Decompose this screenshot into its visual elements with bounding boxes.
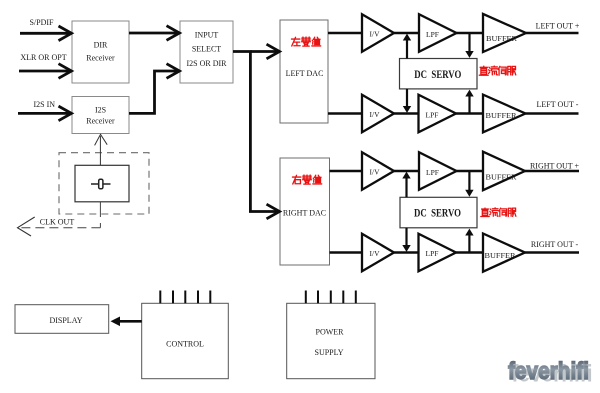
svg-text:I/V: I/V (370, 110, 381, 119)
svg-text:CONTROL: CONTROL (166, 340, 204, 349)
svg-text:BUFFER: BUFFER (486, 173, 517, 182)
svg-text:RIGHT OUT +: RIGHT OUT + (530, 162, 580, 171)
svg-text:I/V: I/V (370, 29, 381, 38)
svg-text:LEFT OUT +: LEFT OUT + (536, 22, 580, 31)
svg-text:LPF: LPF (426, 249, 439, 258)
svg-text:LEFT DAC: LEFT DAC (286, 69, 324, 78)
svg-text:DC SERVO: DC SERVO (414, 206, 461, 220)
svg-text:Receiver: Receiver (86, 54, 115, 63)
svg-text:BUFFER: BUFFER (486, 34, 517, 43)
svg-text:CLK OUT: CLK OUT (40, 218, 75, 227)
svg-text:I2S: I2S (95, 106, 106, 115)
svg-text:XLR OR OPT: XLR OR OPT (20, 53, 66, 62)
svg-text:RIGHT DAC: RIGHT DAC (283, 209, 326, 218)
svg-text:S/PDIF: S/PDIF (29, 18, 54, 27)
svg-text:SUPPLY: SUPPLY (315, 348, 344, 357)
svg-text:I/V: I/V (370, 249, 381, 258)
svg-text:LPF: LPF (426, 110, 439, 119)
svg-text:SELECT: SELECT (192, 45, 221, 54)
svg-text:INPUT: INPUT (195, 31, 219, 40)
svg-text:Receiver: Receiver (86, 117, 115, 126)
svg-text:LPF: LPF (426, 30, 439, 39)
svg-text:BUFFER: BUFFER (485, 251, 516, 260)
svg-text:feverhifi: feverhifi (508, 358, 589, 385)
svg-text:LEFT OUT -: LEFT OUT - (537, 100, 579, 109)
svg-text:I/V: I/V (370, 167, 381, 176)
svg-text:BUFFER: BUFFER (486, 111, 517, 120)
svg-text:DC SERVO: DC SERVO (414, 67, 461, 81)
svg-text:DIR: DIR (94, 41, 108, 50)
svg-text:LPF: LPF (426, 168, 439, 177)
svg-text:I2S OR DIR: I2S OR DIR (186, 59, 227, 68)
svg-text:I2S IN: I2S IN (34, 100, 56, 109)
svg-text:POWER: POWER (316, 328, 345, 337)
svg-text:RIGHT OUT -: RIGHT OUT - (531, 240, 579, 249)
svg-text:DISPLAY: DISPLAY (49, 316, 82, 325)
